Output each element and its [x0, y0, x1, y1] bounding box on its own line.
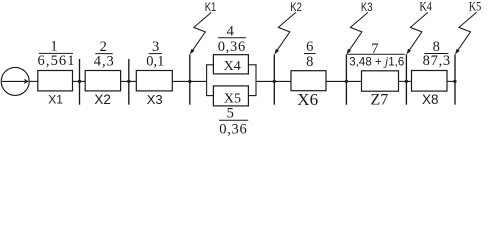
junction dot node K3 [345, 80, 348, 83]
arrowhead K2 [274, 49, 279, 55]
lightning arrow K2 [275, 12, 296, 53]
resistor X8 [412, 71, 448, 92]
arrowhead K4 [406, 49, 411, 55]
svg-text:6: 6 [306, 39, 313, 55]
svg-text:X2: X2 [94, 92, 111, 107]
source arrow shaft [2, 80, 26, 82]
wire X8 to node K5 [447, 80, 455, 82]
resistor X3 [136, 71, 172, 91]
node tick between X2 and X3 [128, 59, 130, 105]
svg-text:4: 4 [227, 24, 235, 40]
wire circle to X1 [29, 80, 38, 82]
resistor X6 [291, 71, 326, 91]
resistor X4 [213, 55, 248, 74]
junction dot node K4 [405, 80, 408, 83]
fraction bar X6 [304, 53, 316, 55]
node tick between X1 and X2 [79, 59, 81, 105]
junction dot node K1 [188, 80, 191, 83]
wire parallel right vertical [255, 65, 257, 96]
fraction bar X1 [39, 52, 73, 54]
wire bottom branch left [206, 95, 213, 97]
wire parallel left vertical [206, 65, 208, 96]
svg-text:5: 5 [227, 106, 234, 122]
lightning arrow K3 [347, 12, 368, 53]
svg-text:K5: K5 [469, 0, 482, 14]
svg-text:K3: K3 [361, 1, 373, 14]
svg-text:0,36: 0,36 [219, 121, 247, 137]
svg-text:8: 8 [306, 54, 313, 70]
svg-text:X8: X8 [422, 92, 439, 107]
svg-text:K2: K2 [290, 1, 302, 14]
wire X3 to parallel group [172, 80, 206, 82]
svg-text:X3: X3 [147, 92, 163, 107]
junction dot node K2 [273, 80, 276, 83]
svg-text:X5: X5 [224, 91, 241, 106]
svg-text:0,1: 0,1 [146, 53, 164, 69]
node tick K4 [405, 54, 407, 104]
svg-text:Z7: Z7 [371, 92, 389, 109]
resistor X5 [213, 86, 248, 106]
fraction bar X5 [219, 119, 248, 121]
wire X2 to X3 [121, 80, 137, 82]
fraction bar Z7 [347, 53, 405, 55]
arrowhead K1 [190, 49, 195, 55]
impedance Z7 [362, 71, 399, 91]
arrowhead K3 [346, 49, 351, 55]
fraction bar X4 [218, 37, 246, 39]
wire top branch right [248, 64, 256, 66]
junction dot node K5 [453, 80, 456, 83]
node tick K1 [189, 54, 191, 104]
resistor X1 [38, 71, 73, 91]
resistor X2 [85, 71, 120, 91]
junction dot node 1 [78, 80, 81, 83]
svg-text:X6: X6 [297, 90, 318, 109]
source arrow head [24, 79, 29, 84]
svg-text:K1: K1 [205, 1, 217, 14]
fraction bar X8 [424, 53, 448, 55]
wire parallel group to X6 [256, 80, 291, 82]
junction dot node 2 [127, 80, 130, 83]
svg-text:87,3: 87,3 [423, 53, 451, 69]
svg-text:X4: X4 [224, 59, 241, 74]
node tick K5 [454, 54, 456, 104]
svg-text:4,3: 4,3 [94, 53, 114, 69]
svg-text:K4: K4 [419, 0, 432, 14]
node tick K2 [273, 54, 275, 104]
lightning arrow K5 [456, 12, 477, 53]
fraction bar X3 [149, 53, 162, 55]
fraction bar X2 [95, 53, 112, 55]
arrowhead K5 [455, 49, 460, 55]
wire top branch left [206, 64, 213, 66]
wire X6 to Z7 [326, 80, 362, 82]
lightning arrow K1 [191, 12, 212, 53]
node tick K3 [345, 54, 347, 104]
source G circle [1, 67, 29, 95]
wire Z7 to X8 [399, 80, 412, 82]
wire bottom branch right [248, 95, 256, 97]
svg-text:0,36: 0,36 [218, 39, 246, 55]
svg-text:6,561: 6,561 [38, 53, 75, 69]
wire X1 to X2 [73, 80, 86, 82]
svg-text:3,48 + j1,6: 3,48 + j1,6 [349, 54, 404, 68]
lightning arrow K4 [407, 12, 428, 53]
svg-text:X1: X1 [48, 93, 63, 107]
